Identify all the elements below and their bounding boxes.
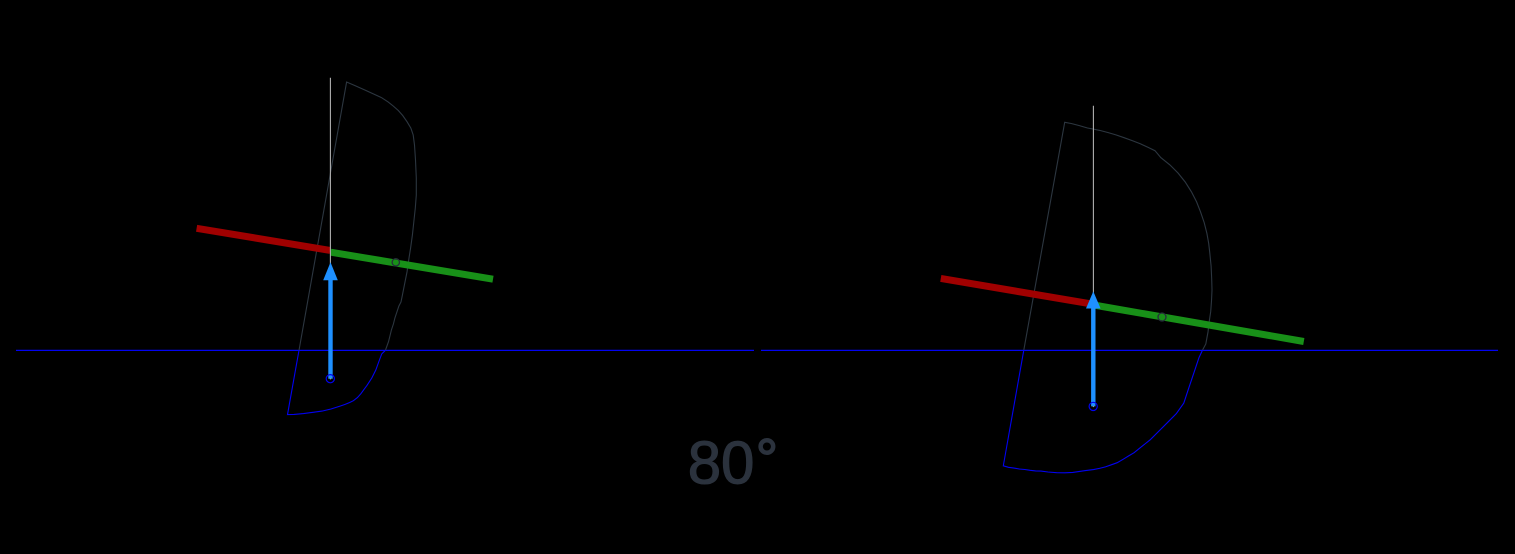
svg-text:80: 80: [688, 429, 755, 496]
